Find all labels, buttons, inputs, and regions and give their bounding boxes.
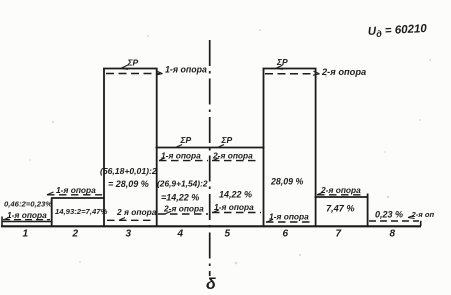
- svg-text:8: 8: [390, 229, 396, 240]
- svg-text:4: 4: [177, 229, 184, 240]
- arrow bar4 low: [165, 211, 171, 214]
- dashed arrow line above bar 7 top: [317, 194, 362, 196]
- dashed line bottom of bar 4: [158, 213, 208, 215]
- arrow bar6 low: [267, 219, 273, 222]
- dashed arrow line above bar 2 top: [47, 194, 102, 196]
- svg-text:2-я опора: 2-я опора: [320, 185, 361, 195]
- bar 2 left edge: [51, 198, 53, 226]
- svg-text:=14,22 %: =14,22 %: [161, 193, 199, 203]
- svg-text:1: 1: [23, 229, 29, 240]
- svg-text:3: 3: [126, 229, 132, 240]
- dashed line bottom of bar 5: [212, 212, 261, 214]
- svg-text:6: 6: [283, 229, 289, 240]
- svg-text:0,46:2=0,23%: 0,46:2=0,23%: [4, 200, 52, 209]
- svg-text:= 28,09 %: = 28,09 %: [108, 179, 149, 189]
- dashed underline 2-ya opora (bar 5): [212, 160, 259, 162]
- arrow bar5 level: [213, 158, 219, 161]
- bar 3 / bar 4 edge: [156, 69, 158, 227]
- dashed line bottom of bar 1: [3, 219, 50, 221]
- arrow bar2 label: [47, 192, 54, 195]
- svg-text:ΣP: ΣP: [276, 57, 288, 67]
- svg-text:2-я опора: 2-я опора: [321, 67, 366, 77]
- arrow bar1 label: [4, 217, 10, 220]
- svg-text:1-я опора: 1-я опора: [161, 151, 201, 161]
- arrow bar3 low: [119, 218, 125, 221]
- svg-text:7: 7: [336, 229, 342, 240]
- bar 6 right edge: [315, 69, 317, 227]
- svg-text:28,09 %: 28,09 %: [270, 177, 303, 187]
- svg-text:2-я опора: 2-я опора: [163, 204, 204, 214]
- sigma-P arrow bar 3: [121, 65, 128, 69]
- svg-text:1-я опора: 1-я опора: [7, 210, 47, 220]
- sigma-P arrow bar 6: [276, 65, 283, 69]
- bar 1 top: [2, 221, 52, 223]
- svg-text:(56,18+0,01):2: (56,18+0,01):2: [100, 166, 157, 176]
- axis end tick left: [1, 217, 3, 228]
- svg-text:1-я опора: 1-я опора: [214, 202, 254, 212]
- svg-text:1-я опора: 1-я опора: [269, 212, 309, 222]
- svg-text:2: 2: [72, 229, 79, 240]
- svg-text:2-я оп: 2-я оп: [411, 210, 435, 219]
- bar 7 top: [315, 196, 369, 198]
- dashed line bottom of bar 3 (2-ya opora low): [107, 219, 155, 221]
- svg-text:ΣP: ΣP: [127, 58, 139, 68]
- dashed level line under bar 3 top (1-ya opora): [106, 73, 160, 75]
- dashed underline 1-ya opora (bar 4): [159, 160, 208, 162]
- arrow bar4 level: [159, 158, 165, 161]
- bar 2 top: [51, 197, 104, 199]
- bar 8 top dashed: [369, 220, 419, 222]
- svg-text:1-я опора: 1-я опора: [56, 185, 96, 195]
- arrowhead bar6 level: [313, 71, 320, 75]
- axis end tick right: [420, 221, 422, 226]
- bar 3 top: [103, 68, 158, 70]
- bar 3 left edge: [103, 69, 105, 227]
- sigma-P arrow bar 4: [176, 145, 182, 148]
- dashed level line under bar 6 top (2-ya opora): [265, 73, 315, 75]
- svg-text:ΣP: ΣP: [221, 135, 233, 145]
- svg-text:0,23 %: 0,23 %: [375, 210, 403, 220]
- svg-text:5: 5: [225, 229, 231, 240]
- arrow bar7 label: [317, 192, 324, 195]
- centerline (dash-dot axis of symmetry): [209, 40, 211, 276]
- svg-text:14,93:2=7,47%: 14,93:2=7,47%: [55, 207, 108, 216]
- svg-text:δ: δ: [206, 276, 216, 293]
- svg-text:2-я опора: 2-я опора: [212, 151, 253, 161]
- bar 7 right edge: [367, 194, 369, 227]
- bar 6 left edge: [263, 69, 265, 227]
- svg-text:1-я опора: 1-я опора: [165, 65, 207, 75]
- svg-text:14,22 %: 14,22 %: [219, 190, 252, 200]
- bar 6 top: [263, 68, 317, 70]
- small arrow before 2-ya op (bar 8): [408, 215, 415, 218]
- svg-text:ΣP: ΣP: [180, 135, 192, 145]
- sigma-P arrow bar 5: [218, 145, 224, 148]
- arrowhead bar3 level: [156, 71, 163, 75]
- svg-text:(26,9+1,54):2: (26,9+1,54):2: [157, 179, 208, 189]
- svg-text:2 я опора: 2 я опора: [116, 207, 157, 217]
- arrow bar5 low: [213, 210, 219, 213]
- baseline x-axis: [1, 225, 421, 227]
- dashed line bottom of bar 6: [266, 221, 314, 223]
- bars 4-5 top: [156, 147, 265, 149]
- svg-text:7,47 %: 7,47 %: [326, 204, 355, 214]
